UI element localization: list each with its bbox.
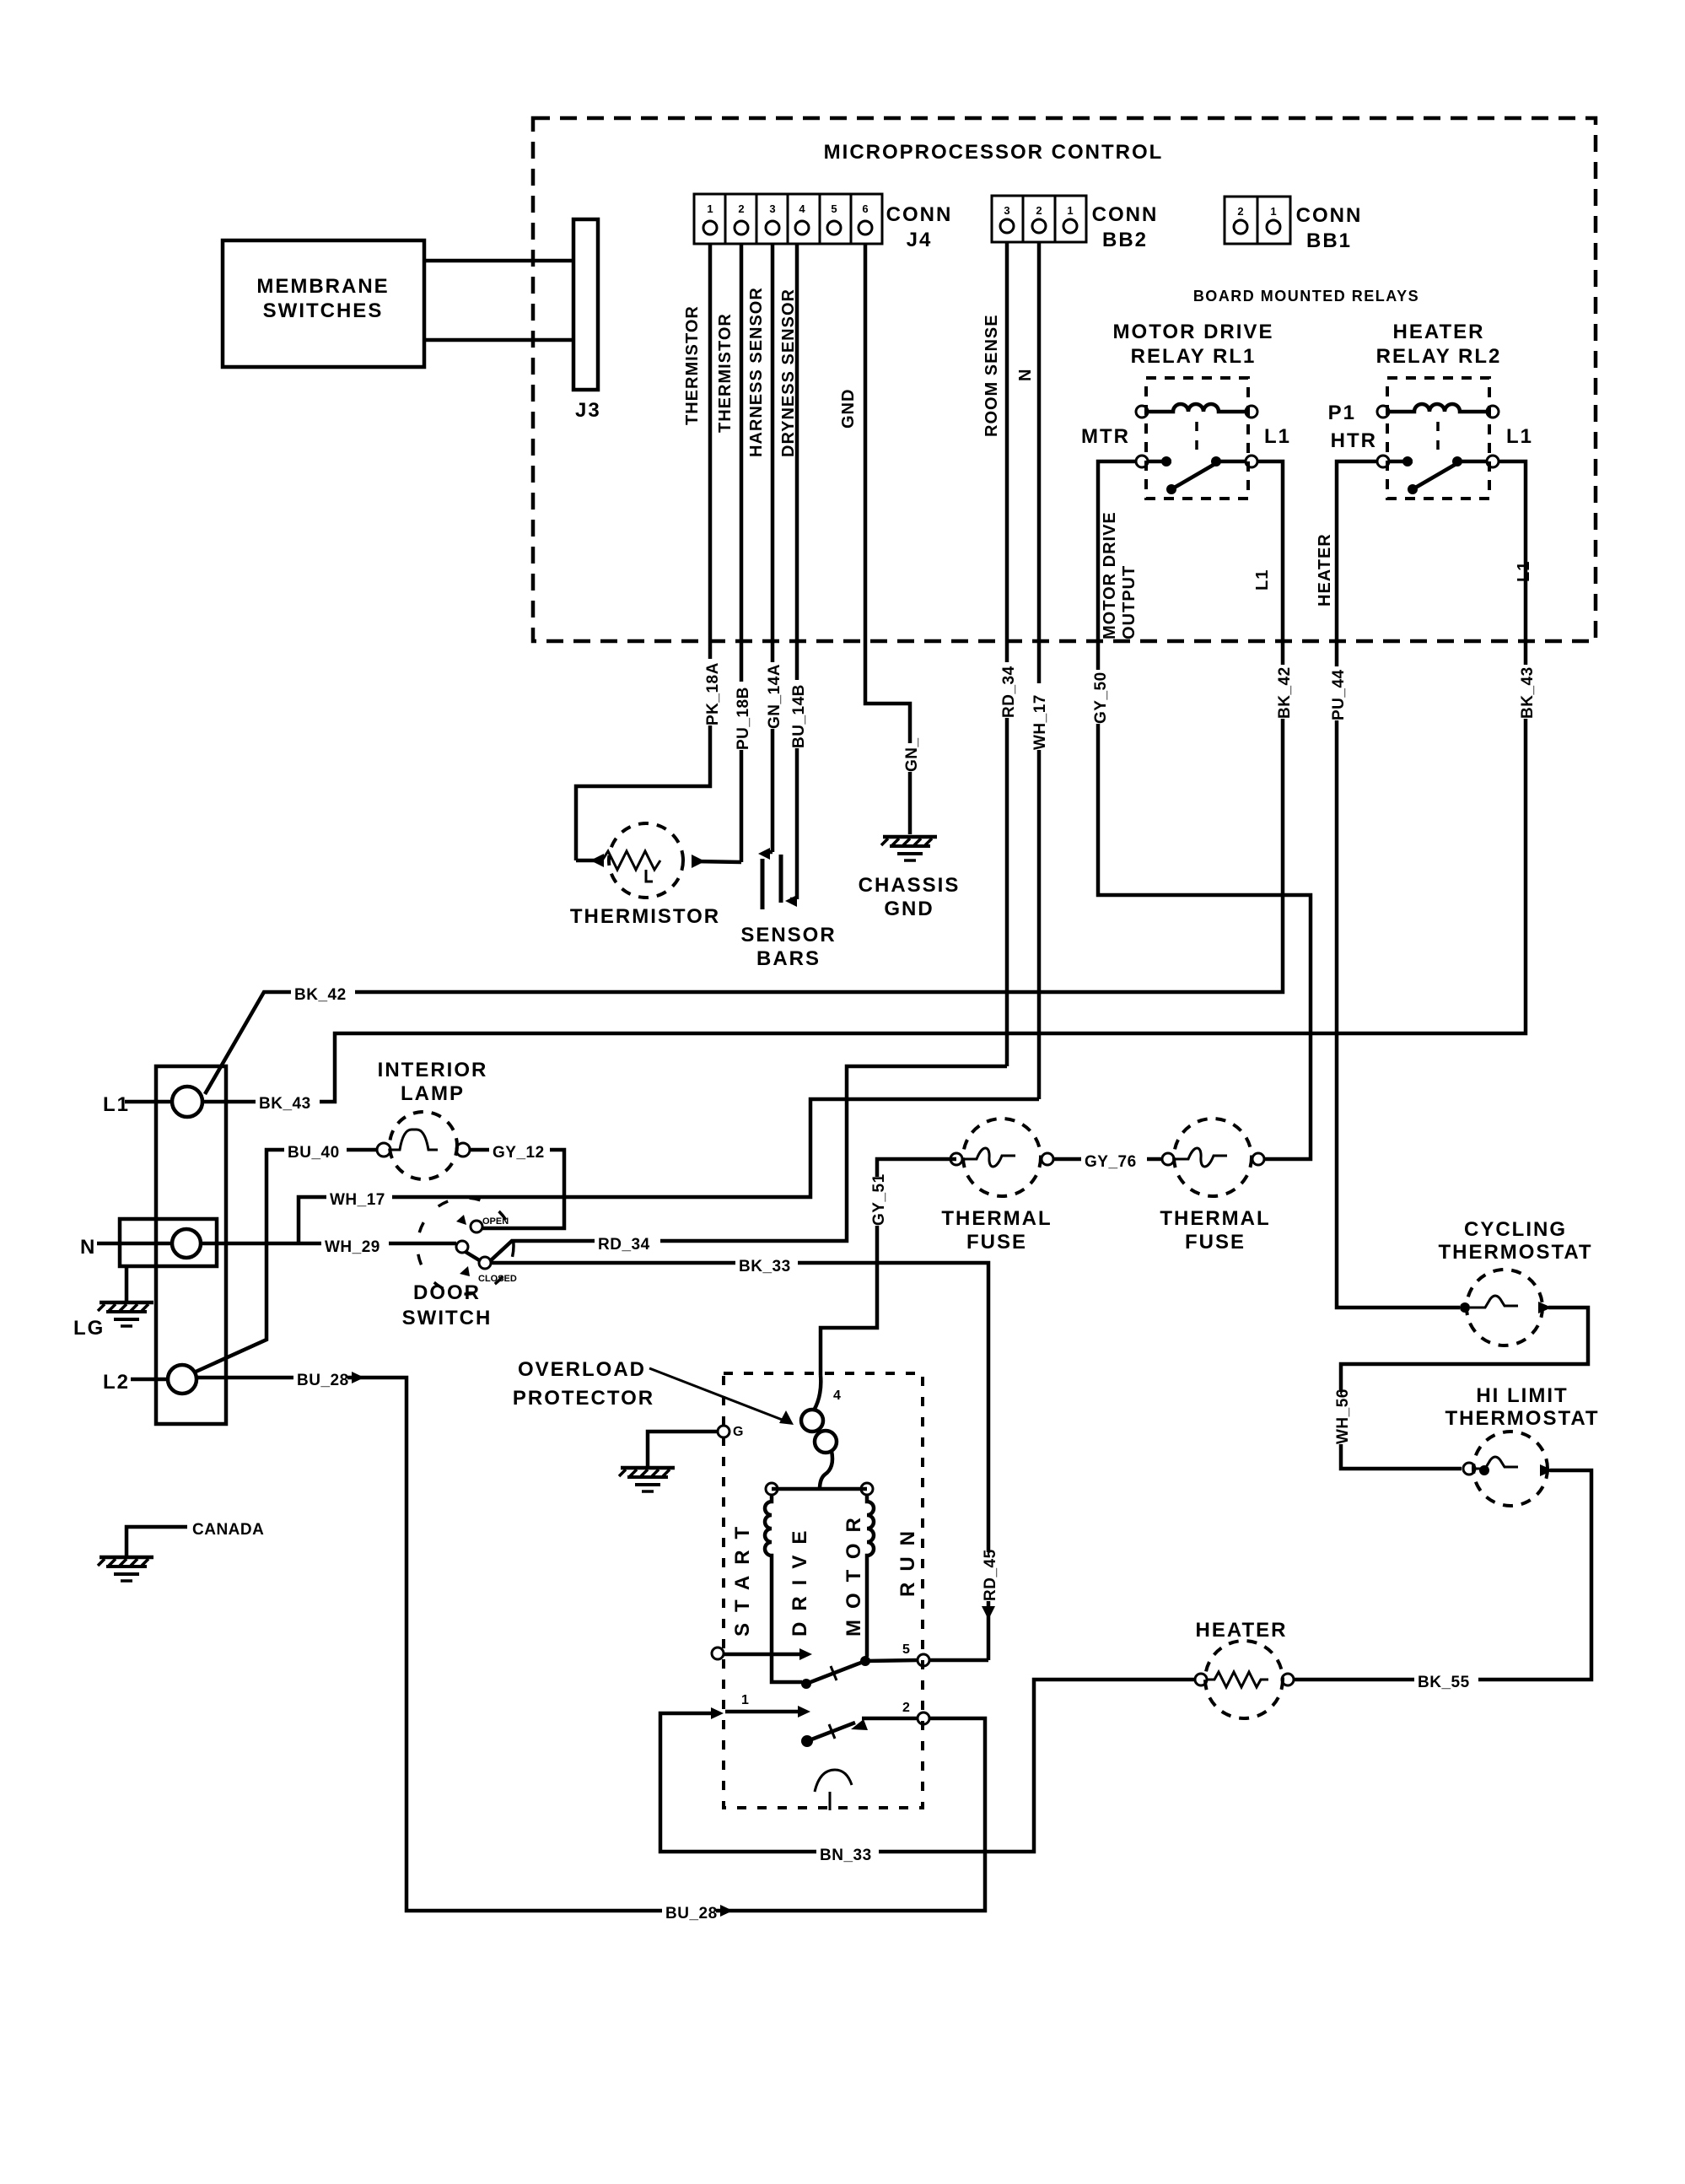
connector CONN J4 bbox=[694, 194, 952, 251]
svg-text:WH_17: WH_17 bbox=[330, 1191, 385, 1209]
svg-text:GY_12: GY_12 bbox=[493, 1144, 545, 1162]
overload protector device bbox=[801, 1375, 841, 1489]
chassis ground bbox=[859, 837, 961, 920]
wire BN_33 heater to motor switch bbox=[660, 1680, 1195, 1864]
svg-text:GY_51: GY_51 bbox=[870, 1173, 888, 1226]
svg-text:BK_43: BK_43 bbox=[259, 1095, 311, 1113]
svg-text:2: 2 bbox=[902, 1701, 910, 1715]
svg-text:P1: P1 bbox=[1328, 402, 1356, 424]
svg-text:CONN: CONN bbox=[1092, 203, 1159, 226]
hi limit thermostat bbox=[1463, 1432, 1553, 1506]
svg-text:GND: GND bbox=[884, 898, 934, 920]
wire BU_40 L2 to lamp bbox=[194, 1139, 377, 1372]
wire WH_29 N to door switch bbox=[201, 1233, 456, 1256]
wire membrane to J3 (upper) bbox=[424, 259, 573, 263]
svg-text:MEMBRANE: MEMBRANE bbox=[256, 275, 389, 298]
label INTERIOR LAMP bbox=[378, 1059, 488, 1105]
wire label BU_14B bbox=[789, 680, 808, 748]
svg-text:MICROPROCESSOR CONTROL: MICROPROCESSOR CONTROL bbox=[824, 141, 1164, 164]
svg-text:DRYNESS SENSOR: DRYNESS SENSOR bbox=[779, 289, 798, 457]
motor start switch bbox=[712, 1642, 929, 1684]
ground LG bbox=[73, 1266, 153, 1340]
svg-text:BU_28: BU_28 bbox=[665, 1905, 718, 1922]
relay RL1 dashed box bbox=[1146, 378, 1248, 499]
terminal N bbox=[80, 1229, 201, 1259]
svg-text:3: 3 bbox=[769, 202, 775, 215]
svg-text:DOOR: DOOR bbox=[413, 1281, 481, 1304]
wire PU_44 heater drive bbox=[1316, 461, 1460, 1308]
label MOTOR DRIVE RELAY RL1 bbox=[1113, 321, 1274, 368]
svg-text:FUSE: FUSE bbox=[966, 1231, 1027, 1254]
wire BB2 pin3 room sense bbox=[982, 242, 1007, 1066]
svg-text:ROOM SENSE: ROOM SENSE bbox=[982, 314, 1001, 437]
svg-text:WH_17: WH_17 bbox=[1031, 694, 1049, 750]
svg-text:L2: L2 bbox=[103, 1371, 130, 1394]
wire J4 pin3 harness sensor bbox=[747, 244, 773, 852]
thermal fuse 2 bbox=[1160, 1119, 1270, 1254]
wire BK_33 door switch to motor 5 bbox=[491, 1253, 999, 1660]
svg-text:4: 4 bbox=[799, 202, 805, 215]
svg-text:BK_42: BK_42 bbox=[1276, 666, 1294, 719]
svg-text:GN_: GN_ bbox=[903, 737, 921, 772]
svg-text:HEATER: HEATER bbox=[1393, 321, 1485, 343]
terminal L1 bbox=[103, 1087, 202, 1117]
svg-text:2: 2 bbox=[738, 202, 744, 215]
wire BK_43 from RL2 L1 to terminal L1 bbox=[202, 461, 1537, 1113]
svg-text:OPEN: OPEN bbox=[482, 1216, 509, 1227]
wire BK_55 hi limit to heater bbox=[1294, 1470, 1591, 1691]
sensor bars bbox=[740, 848, 836, 970]
terminal block bbox=[120, 1066, 226, 1424]
wire label GN_ bbox=[902, 737, 921, 772]
label HEATER RELAY RL2 bbox=[1376, 321, 1502, 368]
relay RL2 dashed box bbox=[1387, 378, 1489, 499]
title MICROPROCESSOR CONTROL bbox=[824, 141, 1164, 164]
svg-text:RD_45: RD_45 bbox=[982, 1549, 999, 1601]
svg-text:CANADA: CANADA bbox=[192, 1521, 264, 1539]
svg-text:L1: L1 bbox=[1253, 569, 1272, 590]
connector CONN BB1 bbox=[1225, 197, 1362, 252]
relay RL2 coil bbox=[1377, 404, 1499, 454]
svg-text:OVERLOAD: OVERLOAD bbox=[518, 1358, 646, 1381]
svg-text:BARS: BARS bbox=[756, 947, 821, 970]
overload protector pointer bbox=[649, 1368, 794, 1425]
svg-text:1: 1 bbox=[1067, 204, 1073, 217]
wire GY_51 to thermal fuse and overload bbox=[821, 1159, 956, 1375]
svg-text:LG: LG bbox=[73, 1317, 105, 1340]
svg-text:BU_28: BU_28 bbox=[297, 1372, 349, 1389]
svg-text:HTR: HTR bbox=[1331, 429, 1377, 452]
svg-text:L1: L1 bbox=[1515, 561, 1533, 582]
svg-text:LAMP: LAMP bbox=[401, 1082, 465, 1105]
label RUN bbox=[896, 1520, 919, 1597]
wire GY_76 between fuses bbox=[1053, 1148, 1162, 1171]
svg-text:BN_33: BN_33 bbox=[820, 1847, 872, 1864]
relay RL1 contact bbox=[1081, 425, 1291, 494]
ground CANADA bbox=[98, 1521, 264, 1581]
svg-text:N: N bbox=[1016, 369, 1035, 381]
label BOARD MOUNTED RELAYS bbox=[1193, 288, 1419, 305]
wire GY_50 motor drive output bbox=[1090, 461, 1311, 1159]
svg-text:L1: L1 bbox=[1264, 425, 1291, 448]
svg-text:CYCLING: CYCLING bbox=[1464, 1218, 1567, 1241]
motor run switch bbox=[725, 1693, 929, 1747]
svg-text:PU_18B: PU_18B bbox=[735, 687, 752, 750]
svg-text:BK_43: BK_43 bbox=[1519, 666, 1537, 719]
svg-text:CONN: CONN bbox=[886, 203, 953, 226]
svg-text:INTERIOR: INTERIOR bbox=[378, 1059, 488, 1081]
relay RL1 coil bbox=[1136, 404, 1257, 454]
label START bbox=[731, 1516, 754, 1637]
svg-text:MOTOR: MOTOR bbox=[842, 1507, 865, 1637]
svg-text:2: 2 bbox=[1036, 204, 1042, 217]
svg-text:5: 5 bbox=[902, 1642, 910, 1657]
wire J4 pin2 thermistor bbox=[716, 244, 741, 862]
wire WH_17 N to BB2 pin2 bbox=[299, 1099, 1039, 1243]
connector J3 bbox=[573, 219, 601, 422]
cycling thermostat bbox=[1460, 1270, 1552, 1345]
svg-text:HARNESS SENSOR: HARNESS SENSOR bbox=[747, 287, 766, 457]
terminal L2 bbox=[103, 1365, 196, 1394]
membrane switches box bbox=[223, 240, 424, 367]
svg-text:START: START bbox=[731, 1516, 754, 1637]
label OVERLOAD PROTECTOR bbox=[513, 1358, 654, 1410]
svg-text:HEATER: HEATER bbox=[1196, 1619, 1288, 1642]
svg-text:RD_34: RD_34 bbox=[598, 1236, 650, 1254]
svg-text:OUTPUT: OUTPUT bbox=[1120, 565, 1139, 639]
svg-text:HEATER: HEATER bbox=[1316, 533, 1334, 607]
svg-text:J3: J3 bbox=[575, 399, 601, 422]
wire label PK_18A bbox=[703, 659, 722, 725]
svg-text:WH_56: WH_56 bbox=[1334, 1389, 1352, 1444]
svg-text:THERMISTOR: THERMISTOR bbox=[683, 305, 702, 425]
ground G motor bbox=[619, 1425, 743, 1491]
svg-text:CHASSIS: CHASSIS bbox=[859, 874, 961, 897]
svg-text:4: 4 bbox=[833, 1389, 841, 1403]
wire J4 pin1 thermistor bbox=[576, 244, 710, 860]
label HEATER bbox=[1196, 1619, 1288, 1642]
svg-text:RELAY RL2: RELAY RL2 bbox=[1376, 345, 1502, 368]
svg-text:PK_18A: PK_18A bbox=[704, 662, 722, 725]
svg-text:GND: GND bbox=[839, 389, 858, 429]
wire J4 pin6 gnd bbox=[839, 244, 910, 834]
interior lamp bbox=[377, 1112, 470, 1179]
wire label GN_14A bbox=[764, 662, 783, 729]
svg-text:MOTOR DRIVE: MOTOR DRIVE bbox=[1101, 511, 1119, 639]
svg-text:HI LIMIT: HI LIMIT bbox=[1476, 1384, 1568, 1407]
svg-text:SWITCHES: SWITCHES bbox=[263, 299, 384, 322]
svg-text:RD_34: RD_34 bbox=[1000, 666, 1018, 718]
wire BU_28 L2 to motor 2 bbox=[196, 1367, 985, 1922]
svg-text:J4: J4 bbox=[907, 229, 933, 251]
svg-text:BU_40: BU_40 bbox=[288, 1144, 340, 1162]
wire motor 5 to BK_33 bbox=[929, 1658, 988, 1663]
wire cycling thermostat to hi limit bbox=[1332, 1308, 1588, 1469]
wire membrane to J3 (lower) bbox=[424, 338, 573, 342]
svg-text:BK_33: BK_33 bbox=[739, 1258, 791, 1275]
svg-text:GY_50: GY_50 bbox=[1092, 671, 1110, 724]
svg-text:BB1: BB1 bbox=[1306, 229, 1352, 252]
svg-text:THERMOSTAT: THERMOSTAT bbox=[1445, 1407, 1599, 1430]
svg-text:2: 2 bbox=[1237, 205, 1243, 218]
wire RD_34 door switch to BB2 pin3 bbox=[490, 1066, 1007, 1261]
svg-text:WH_29: WH_29 bbox=[325, 1238, 380, 1256]
wire J4 pin4 dryness sensor bbox=[779, 244, 798, 899]
svg-text:5: 5 bbox=[831, 202, 837, 215]
svg-text:1: 1 bbox=[741, 1693, 749, 1707]
wire label WH_17 vertical bbox=[1030, 683, 1049, 750]
svg-text:L1: L1 bbox=[103, 1093, 130, 1116]
thermistor bbox=[570, 823, 741, 928]
svg-text:MOTOR DRIVE: MOTOR DRIVE bbox=[1113, 321, 1274, 343]
svg-text:PROTECTOR: PROTECTOR bbox=[513, 1387, 654, 1410]
svg-text:1: 1 bbox=[1270, 205, 1276, 218]
svg-text:RELAY RL1: RELAY RL1 bbox=[1131, 345, 1257, 368]
svg-text:GN_14A: GN_14A bbox=[766, 664, 783, 729]
motor centrifugal actuator bbox=[815, 1770, 852, 1810]
svg-text:CLOSED: CLOSED bbox=[478, 1274, 517, 1284]
relay RL2 contact bbox=[1328, 402, 1533, 494]
svg-text:BU_14B: BU_14B bbox=[790, 684, 808, 748]
svg-text:BK_55: BK_55 bbox=[1418, 1674, 1470, 1691]
svg-text:3: 3 bbox=[1004, 204, 1009, 217]
thermal fuse 1 bbox=[941, 1119, 1053, 1254]
wire label PU_18B bbox=[733, 682, 752, 750]
microprocessor control dashed box bbox=[533, 118, 1596, 641]
svg-text:THERMISTOR: THERMISTOR bbox=[570, 905, 720, 928]
svg-text:MTR: MTR bbox=[1081, 425, 1130, 448]
svg-text:G: G bbox=[733, 1425, 743, 1439]
connector CONN BB2 bbox=[992, 196, 1158, 251]
svg-text:SENSOR: SENSOR bbox=[740, 924, 836, 946]
svg-text:THERMOSTAT: THERMOSTAT bbox=[1438, 1241, 1592, 1264]
label MOTOR bbox=[842, 1507, 865, 1637]
door switch bbox=[402, 1198, 517, 1329]
svg-text:SWITCH: SWITCH bbox=[402, 1307, 493, 1329]
svg-text:FUSE: FUSE bbox=[1185, 1231, 1246, 1254]
label HI LIMIT THERMOSTAT bbox=[1445, 1384, 1599, 1430]
wire BK_42 from RL1 L1 to terminal L1 bbox=[205, 461, 1294, 1094]
svg-text:1: 1 bbox=[707, 202, 713, 215]
svg-text:THERMAL: THERMAL bbox=[1160, 1207, 1270, 1230]
wire BB2 pin2 N bbox=[1016, 242, 1039, 1099]
svg-text:PU_44: PU_44 bbox=[1330, 669, 1348, 720]
wire GY_12 lamp to door switch bbox=[470, 1139, 564, 1228]
svg-text:GY_76: GY_76 bbox=[1085, 1153, 1137, 1171]
svg-text:N: N bbox=[80, 1236, 96, 1259]
svg-text:DRIVE: DRIVE bbox=[789, 1520, 811, 1637]
wire label RD_34 vertical bbox=[999, 662, 1018, 718]
motor windings bbox=[765, 1483, 874, 1689]
svg-text:RUN: RUN bbox=[896, 1520, 919, 1597]
label CYCLING THERMOSTAT bbox=[1438, 1218, 1592, 1264]
svg-text:CONN: CONN bbox=[1296, 204, 1363, 227]
svg-text:THERMISTOR: THERMISTOR bbox=[716, 313, 735, 433]
label DRIVE bbox=[789, 1520, 811, 1637]
svg-text:6: 6 bbox=[862, 202, 868, 215]
svg-text:THERMAL: THERMAL bbox=[941, 1207, 1052, 1230]
svg-text:BOARD MOUNTED RELAYS: BOARD MOUNTED RELAYS bbox=[1193, 288, 1419, 305]
svg-text:BB2: BB2 bbox=[1102, 229, 1148, 251]
svg-text:L1: L1 bbox=[1506, 425, 1533, 448]
heater bbox=[1195, 1641, 1294, 1718]
motor dashed box bbox=[724, 1373, 923, 1808]
svg-text:BK_42: BK_42 bbox=[294, 986, 347, 1004]
